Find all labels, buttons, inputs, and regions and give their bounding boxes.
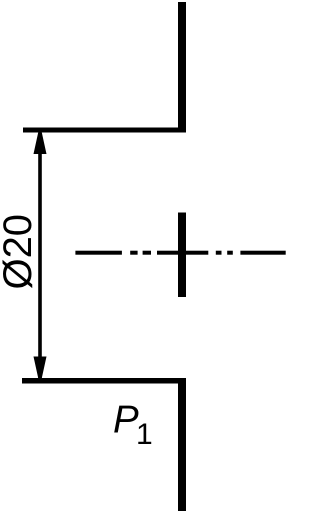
svg-text:Ø20: Ø20 (0, 214, 40, 290)
svg-text:1: 1 (136, 418, 153, 451)
